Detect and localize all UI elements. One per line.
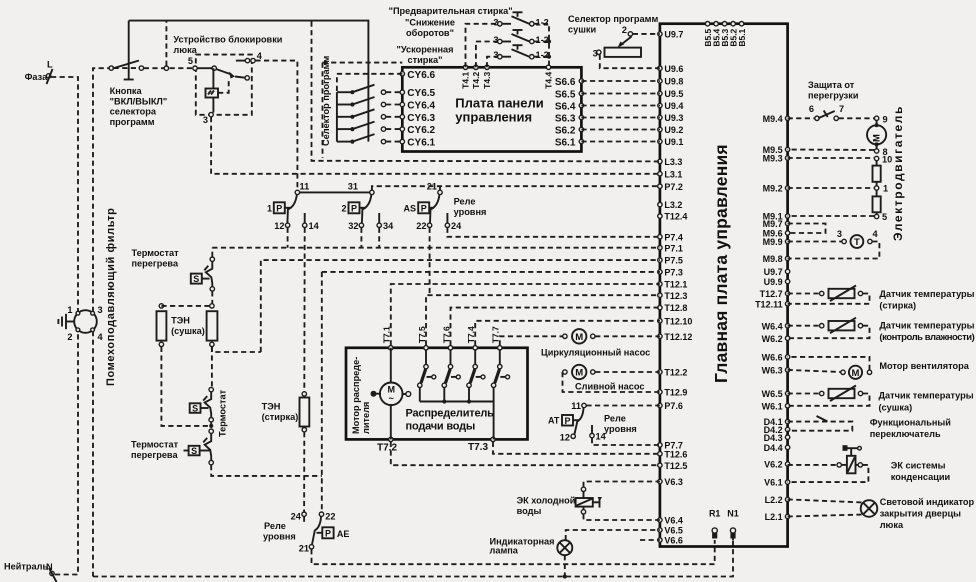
indicator lamp	[557, 540, 572, 555]
wire W6.3 to fan	[788, 370, 841, 372]
label Электродвигатель	[891, 105, 905, 241]
label Селектор программ	[321, 56, 331, 146]
door lock inner box	[196, 55, 252, 115]
svg-text:уровня: уровня	[263, 532, 296, 542]
wire AE-24 stub	[303, 517, 305, 525]
functional switch	[817, 416, 828, 422]
wash temperature sensor	[820, 286, 863, 302]
svg-text:S6.3: S6.3	[555, 114, 576, 125]
wire AT-14 to P7.7	[592, 438, 660, 445]
water distributor box	[346, 348, 528, 440]
svg-text:T12.2: T12.2	[664, 368, 687, 378]
svg-text:34: 34	[383, 221, 394, 231]
wire T7.4 to T12.10	[475, 321, 660, 346]
wire M9.3 to resistor	[788, 157, 875, 159]
svg-text:S: S	[191, 446, 197, 456]
wire thermostat3 bottom to P7.3 net	[211, 465, 322, 476]
wire tacho to M9.8	[788, 242, 880, 259]
label 31	[348, 182, 358, 192]
selector bank switch 2	[337, 97, 402, 107]
wire thermostat2 bottom	[210, 422, 212, 429]
main board title	[711, 144, 731, 383]
label Сливной насос	[575, 382, 645, 392]
selector bank switch 3	[337, 109, 402, 119]
svg-text:Реле: Реле	[454, 197, 476, 207]
svg-text:T12.1: T12.1	[664, 280, 687, 290]
svg-text:U9.2: U9.2	[664, 125, 683, 135]
label Устройство блокировки люка	[173, 35, 282, 56]
wire V6.2 to valve	[788, 464, 837, 466]
svg-text:22: 22	[325, 511, 335, 521]
relay 2 (P)	[341, 190, 374, 223]
svg-text:U9.1: U9.1	[664, 137, 683, 147]
svg-text:ЭК системы: ЭК системы	[891, 461, 946, 471]
wire pin3 to L3.1 row	[211, 117, 660, 174]
svg-text:Селектор программ: Селектор программ	[568, 14, 658, 24]
svg-text:ТЭН: ТЭН	[171, 316, 190, 326]
wire heater left down	[161, 347, 209, 426]
pushbutton switch 2 to T4.2	[476, 30, 549, 67]
wire P7.5 riser	[261, 260, 660, 352]
wire on-off to door lock pin5	[144, 67, 195, 69]
wire motor to M9.5	[788, 149, 875, 152]
condensation system valve EK	[837, 445, 863, 473]
svg-text:2: 2	[622, 25, 627, 35]
svg-text:W6.2: W6.2	[762, 334, 783, 344]
svg-text:P7.6: P7.6	[664, 401, 683, 411]
svg-text:4: 4	[873, 229, 879, 239]
svg-text:(контроль влажности): (контроль влажности)	[879, 332, 974, 343]
drying temperature sensor	[820, 386, 863, 402]
svg-text:Световой индикатор: Световой индикатор	[880, 497, 975, 507]
wire T7.6 to T12.8	[451, 308, 660, 346]
svg-text:перегрузки: перегрузки	[808, 91, 859, 101]
humidity temperature sensor	[820, 318, 863, 334]
svg-text:Датчик температуры: Датчик температуры	[879, 321, 974, 331]
pushbutton switch 3 to T4.3	[487, 45, 549, 67]
svg-text:L: L	[47, 60, 53, 70]
svg-text:ТЭН: ТЭН	[262, 402, 281, 412]
wire wash heater to AE-24	[303, 432, 305, 512]
tacho generator T	[837, 229, 879, 248]
svg-text:24: 24	[291, 511, 302, 521]
wire S6.4 to U9	[581, 105, 660, 107]
svg-text:M: M	[575, 368, 583, 379]
drying heater element left	[157, 304, 167, 347]
svg-text:Мотор распреде-: Мотор распреде-	[351, 357, 361, 434]
distributor valve switch 1	[418, 350, 436, 402]
svg-text:V6.5: V6.5	[664, 526, 683, 536]
svg-text:U9.4: U9.4	[664, 101, 683, 111]
label Термостат перегрева 1	[132, 248, 180, 269]
svg-text:Защита от: Защита от	[808, 80, 855, 90]
wire valve to V6.1	[788, 465, 869, 482]
svg-text:W6.5: W6.5	[762, 389, 783, 399]
svg-text:Плата панели: Плата панели	[455, 96, 543, 111]
door lock switch	[188, 56, 250, 80]
svg-text:P7.5: P7.5	[664, 256, 683, 266]
wash heater element	[300, 392, 310, 432]
svg-text:Термостат: Термостат	[131, 440, 179, 450]
svg-text:T7.2: T7.2	[377, 443, 397, 454]
wire S6.1 to U9	[581, 141, 660, 143]
label Распределитель подачи воды	[406, 408, 495, 433]
label Датчик температуры (стирка)	[879, 289, 974, 311]
svg-text:Фаза: Фаза	[25, 72, 49, 82]
wire heater right to P7.5	[212, 347, 261, 352]
svg-text:"ВКЛ/ВЫКЛ": "ВКЛ/ВЫКЛ"	[110, 96, 168, 106]
svg-text:3: 3	[593, 49, 598, 59]
label ТЭН (стирка)	[262, 402, 299, 423]
wire 11-31 solid	[300, 191, 370, 193]
svg-text:S: S	[193, 274, 199, 284]
svg-text:сушки: сушки	[568, 25, 596, 35]
svg-text:11: 11	[300, 182, 310, 192]
svg-text:S6.1: S6.1	[555, 138, 576, 149]
relay AS contacts 22 24	[416, 213, 462, 231]
wire S6.3 to U9	[581, 117, 660, 119]
svg-text:перегрева: перегрева	[132, 259, 179, 269]
svg-text:AE: AE	[337, 529, 350, 539]
wire D4.1 to switch	[788, 422, 853, 431]
svg-text:V6.1: V6.1	[764, 478, 783, 488]
wire S6.6 to U9	[581, 80, 660, 82]
svg-text:W6.1: W6.1	[762, 401, 783, 411]
wire T7.1 to T12.1	[391, 284, 660, 345]
svg-text:U9.9: U9.9	[764, 277, 783, 287]
distributor valve switch 3	[467, 350, 485, 402]
svg-text:3: 3	[98, 305, 103, 315]
svg-text:программ: программ	[110, 117, 155, 127]
wash temperature sensor wire2	[788, 294, 870, 304]
wire thermostat1 to heaters	[211, 291, 213, 303]
thermostat 1 overheat (S)	[191, 257, 215, 291]
svg-text:V6.4: V6.4	[664, 516, 683, 526]
svg-text:"Ускоренная: "Ускоренная	[397, 45, 454, 55]
svg-text:11: 11	[571, 401, 581, 411]
svg-text:4: 4	[98, 332, 104, 342]
svg-text:L3.2: L3.2	[664, 200, 682, 210]
relay 1 (P)	[267, 190, 300, 223]
label Ускоренная стирка	[397, 45, 454, 66]
label 11	[300, 182, 310, 192]
svg-text:Термостат: Термостат	[132, 248, 180, 258]
circulation pump M	[563, 329, 595, 343]
distributor top pins T7.1-T7.7	[382, 326, 502, 350]
selector bank switch 1	[337, 85, 402, 95]
phase input L	[25, 60, 53, 85]
svg-text:CY6.4: CY6.4	[407, 101, 435, 112]
svg-text:конденсации: конденсации	[891, 472, 951, 482]
wire L2.2 to lamp	[788, 499, 864, 502]
svg-text:W6.4: W6.4	[762, 321, 783, 331]
svg-text:CY6.3: CY6.3	[407, 113, 435, 124]
svg-text:1-2: 1-2	[536, 50, 549, 60]
drying temperature sensor wire1	[788, 393, 820, 395]
svg-text:T12.12: T12.12	[664, 332, 692, 342]
label ТЭН (сушка)	[171, 316, 205, 337]
common wire of pushbuttons to T4.4	[534, 24, 551, 68]
pushbutton switch 1 to T4.1	[466, 12, 549, 67]
svg-text:T12.5: T12.5	[664, 461, 687, 471]
svg-text:Циркуляционный насос: Циркуляционный насос	[541, 348, 650, 358]
svg-text:Реле: Реле	[604, 414, 626, 424]
svg-text:U9.6: U9.6	[664, 64, 683, 74]
svg-text:T12.11: T12.11	[755, 299, 783, 309]
main board left pins U9/L3/P7/T12/V6	[658, 30, 693, 546]
svg-text:9: 9	[883, 115, 888, 125]
svg-text:M: M	[575, 332, 583, 343]
svg-text:31: 31	[348, 182, 358, 192]
overload protection switch	[809, 104, 844, 121]
svg-text:10: 10	[882, 155, 892, 165]
panel board right pins S6.6-S6.1	[555, 77, 584, 149]
svg-text:T: T	[854, 237, 860, 248]
svg-text:M: M	[852, 368, 860, 379]
level relay AT	[548, 401, 607, 443]
svg-text:T4.1: T4.1	[461, 72, 471, 89]
label Функциональный переключатель	[870, 418, 952, 440]
svg-text:3: 3	[837, 229, 842, 239]
svg-text:V6.2: V6.2	[764, 460, 783, 470]
wire CY6.6 to bank	[337, 74, 402, 92]
label Термостат vertical	[218, 389, 228, 437]
svg-text:3: 3	[493, 17, 498, 27]
wire AE-21 to R1	[312, 540, 715, 564]
distributor motor M	[371, 383, 411, 406]
svg-text:1: 1	[67, 305, 72, 315]
wire switch to motor	[839, 117, 877, 119]
wire lamp to V6.5	[566, 530, 660, 540]
wire relay1-14 to wash heater	[303, 228, 305, 392]
svg-text:переключатель: переключатель	[870, 429, 941, 439]
svg-text:T4.2: T4.2	[471, 72, 481, 89]
svg-text:3: 3	[203, 115, 208, 125]
wire P7.3 row	[322, 271, 660, 273]
svg-text:T12.6: T12.6	[664, 449, 687, 459]
svg-text:P: P	[276, 203, 282, 213]
label Мотор распределителя	[351, 357, 371, 434]
panel board left pins CY6.6-CY6.1	[400, 70, 435, 149]
label noise filter	[105, 208, 117, 386]
wire selector-3 to U9.6	[600, 55, 660, 68]
svg-text:T4.4: T4.4	[544, 72, 554, 89]
svg-text:T12.8: T12.8	[664, 303, 687, 313]
svg-text:V6.6: V6.6	[664, 536, 683, 546]
svg-text:S6.4: S6.4	[555, 102, 576, 113]
label Световой индикатор закрытия дверцы люка	[880, 497, 975, 530]
svg-text:(стирка): (стирка)	[262, 412, 299, 422]
wire drain pump to T12.2	[595, 371, 660, 373]
door lock coil	[203, 68, 218, 125]
svg-text:уровня: уровня	[604, 424, 637, 434]
svg-text:M9.4: M9.4	[763, 114, 783, 124]
svg-text:M9.2: M9.2	[763, 184, 783, 194]
svg-text:1-2: 1-2	[536, 17, 549, 27]
wire S6.5 to U9	[581, 93, 660, 95]
wire 22 down to T12.3	[429, 228, 431, 296]
svg-text:CY6.5: CY6.5	[407, 88, 435, 99]
wire P7.1 net	[212, 247, 660, 249]
thermostat 3 overheat (S)	[184, 429, 214, 465]
svg-text:D4.3: D4.3	[764, 433, 783, 443]
svg-text:T12.9: T12.9	[664, 388, 687, 398]
svg-text:P: P	[564, 416, 570, 426]
wire 34 down	[378, 228, 380, 248]
svg-text:1: 1	[267, 203, 272, 213]
svg-text:Селектор программ: Селектор программ	[321, 56, 331, 146]
motor tapped resistor	[873, 155, 893, 223]
thermostat 2 wash (S)	[190, 387, 214, 422]
wire motor to T7.2	[390, 404, 392, 439]
label Мотор вентилятора	[879, 361, 969, 371]
svg-text:V6.3: V6.3	[664, 477, 683, 487]
label Датчик температуры (контроль влажности)	[879, 321, 974, 344]
junction circle on phase wire	[164, 66, 168, 70]
svg-text:2: 2	[341, 203, 346, 213]
svg-text:люка: люка	[173, 45, 197, 55]
svg-text:(сушка): (сушка)	[879, 403, 913, 413]
neutral input N	[4, 562, 57, 582]
svg-text:P7.2: P7.2	[664, 182, 683, 192]
selector box top wire	[323, 62, 403, 64]
junction heaters return	[209, 424, 213, 428]
svg-text:12: 12	[560, 433, 570, 443]
svg-text:перегрева: перегрева	[131, 450, 178, 460]
wire selector-2 to U9.7	[633, 33, 660, 35]
svg-text:Датчик температуры: Датчик температуры	[879, 289, 974, 299]
wire T7.7 up	[500, 336, 563, 345]
svg-text:оборотов": оборотов"	[406, 28, 454, 38]
distributor bottom pins T7.2 T7.3	[377, 437, 495, 453]
svg-text:люка: люка	[880, 520, 904, 530]
neutral bottom bus	[93, 533, 733, 577]
svg-text:(сушка): (сушка)	[171, 326, 205, 336]
label Датчик температуры (сушка)	[879, 391, 974, 413]
svg-text:6: 6	[809, 104, 814, 114]
wire pump to T12.12	[595, 335, 660, 337]
drying heater element right	[207, 304, 218, 347]
wire valve bottom to V6.4	[584, 514, 660, 520]
wire M9.2 to resistor tap	[788, 187, 875, 189]
fan motor M	[841, 366, 872, 379]
wire thermostat1 top to P7.1	[211, 248, 213, 257]
svg-text:Устройство блокировки: Устройство блокировки	[173, 35, 282, 45]
svg-text:P: P	[421, 203, 427, 213]
wire 31-21 to P7.2	[372, 186, 660, 190]
terminals R1 N1 on main board	[709, 509, 739, 539]
svg-text:32: 32	[348, 221, 358, 231]
svg-text:12: 12	[274, 221, 284, 231]
wire L2.1 to lamp	[788, 515, 864, 517]
svg-text:2: 2	[67, 332, 72, 342]
wire M9.7-M9.6 loop	[788, 224, 826, 234]
svg-text:R1: R1	[709, 509, 721, 519]
distributor valve switch 2	[442, 350, 460, 402]
wire T7.1 to motor	[390, 348, 392, 384]
cold water valve EK	[576, 487, 602, 514]
wire valve top to V6.3	[584, 482, 660, 487]
svg-text:D4.4: D4.4	[764, 443, 783, 453]
svg-text:5: 5	[882, 212, 887, 222]
svg-text:T12.10: T12.10	[664, 316, 692, 326]
svg-text:"Снижение: "Снижение	[405, 18, 455, 28]
label ЭК холодной воды	[517, 496, 576, 517]
wire filter pin4 down to neutral bus	[92, 331, 94, 577]
svg-text:L2.2: L2.2	[765, 495, 783, 505]
wire phase loop up	[165, 22, 167, 66]
label ЭК системы конденсации	[891, 461, 951, 483]
drying temperature sensor wire2	[788, 394, 870, 406]
label Снижение оборотов	[405, 18, 455, 39]
svg-text:M9.9: M9.9	[763, 237, 783, 247]
svg-text:Распределитель: Распределитель	[406, 408, 495, 420]
wire AT-11 to P7.6	[586, 405, 660, 407]
svg-text:управления: управления	[455, 110, 532, 125]
svg-text:Помехоподавляющий фильтр: Помехоподавляющий фильтр	[105, 208, 117, 386]
svg-text:Электродвигатель: Электродвигатель	[891, 105, 905, 241]
svg-text:Термостат: Термостат	[218, 389, 228, 437]
on-off button of program selector	[109, 21, 143, 80]
selector bank switch 5	[337, 134, 402, 144]
svg-text:лителя: лителя	[361, 402, 371, 434]
svg-text:лампа: лампа	[490, 545, 519, 555]
relay AS (P)	[403, 190, 442, 223]
svg-text:M: M	[872, 134, 883, 142]
humidity temperature sensor wire2	[788, 326, 870, 339]
door closed indicator lamp	[861, 500, 878, 517]
svg-text:селектора: селектора	[110, 107, 157, 117]
svg-text:P7.4: P7.4	[664, 232, 683, 242]
wire 21 riser	[439, 186, 441, 190]
humidity temperature sensor wire1	[788, 325, 820, 327]
door lock contact 4	[236, 51, 263, 63]
wire 24 to P7.4	[447, 228, 660, 237]
svg-text:3: 3	[493, 50, 498, 60]
label Реле уровня (AS)	[454, 197, 487, 218]
svg-text:M9.7: M9.7	[763, 219, 783, 229]
svg-text:T12.4: T12.4	[664, 212, 687, 222]
svg-text:P7.3: P7.3	[664, 268, 683, 278]
svg-text:T12.3: T12.3	[664, 291, 687, 301]
svg-text:S: S	[192, 403, 198, 413]
wire fan to W6.6	[788, 357, 870, 370]
svg-text:T7.3: T7.3	[468, 442, 488, 453]
svg-text:W6.6: W6.6	[762, 353, 783, 363]
svg-text:3: 3	[493, 35, 498, 45]
wire T7.3 to T12.6	[493, 442, 660, 454]
svg-text:AS: AS	[403, 203, 416, 213]
noise suppression filter	[58, 305, 103, 342]
svg-text:Сливной насос: Сливной насос	[575, 382, 645, 392]
svg-text:Главная плата управления: Главная плата управления	[711, 144, 731, 383]
svg-text:T12.7: T12.7	[760, 289, 783, 299]
svg-text:T4.3: T4.3	[482, 72, 492, 89]
svg-text:24: 24	[451, 221, 462, 231]
drain pump M	[563, 365, 595, 379]
wire N1 down	[732, 533, 734, 540]
label Селектор программ сушки	[568, 14, 658, 35]
wire drain pump left loop	[563, 372, 660, 392]
svg-text:5: 5	[188, 56, 193, 66]
svg-text:21: 21	[299, 544, 309, 554]
wire resistor to M9.1	[788, 215, 875, 217]
svg-text:Нейтраль: Нейтраль	[4, 562, 48, 572]
svg-text:CY6.1: CY6.1	[407, 138, 435, 149]
svg-text:уровня: уровня	[454, 207, 487, 217]
relay 2 contacts 32 34	[348, 213, 394, 231]
wire T7.5 to T12.3	[426, 295, 660, 345]
